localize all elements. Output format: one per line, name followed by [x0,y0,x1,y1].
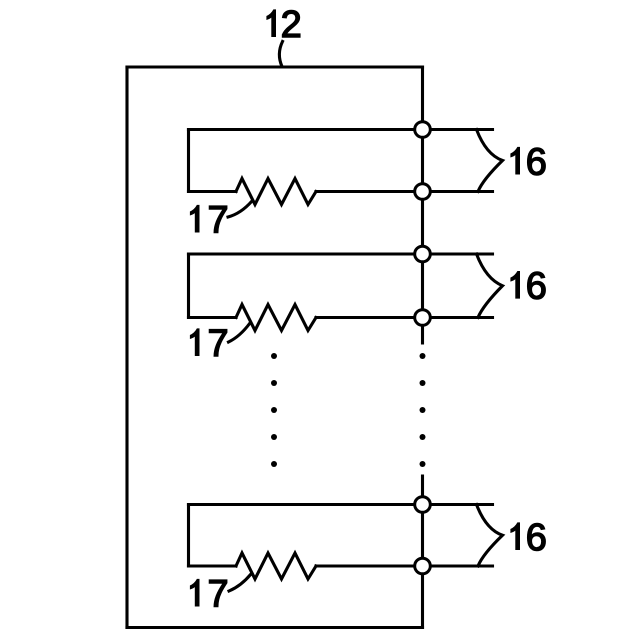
terminal node circle (pair 2 upper) [415,246,431,262]
terminal stub wire lower (pair 1) [423,190,493,193]
label 17 (loop 2) [190,323,229,365]
loop 2 bottom-right wire [316,316,423,319]
label 12 [266,4,301,46]
svg-text:6: 6 [526,266,547,308]
svg-text:7: 7 [208,574,229,616]
resistor 17 (loop 2) zigzag [236,305,316,331]
svg-text:6: 6 [526,517,547,559]
brace 16 (pair 3) [477,505,503,567]
terminal stub wire upper (pair 2) [423,252,493,255]
label 16 (pair 3) [510,517,547,559]
loop 1 left wire [187,130,190,192]
loop 3 left wire [187,505,190,567]
enclosure box 12 : left edge [125,67,128,628]
terminal node circle (pair 3 upper) [415,497,431,513]
terminal node circle (pair 1 upper) [415,122,431,138]
leader line for label 12 [279,42,282,67]
brace 16 (pair 1) [477,130,503,192]
loop 3 top wire [189,503,423,506]
terminal stub wire lower (pair 2) [423,316,493,319]
ellipsis dots left column [271,353,277,467]
loop 1 bottom-right wire [316,190,423,193]
loop 2 bottom-left wire [189,316,237,319]
svg-text:7: 7 [208,200,229,242]
enclosure box 12 : right edge lower segment (bus line) [421,476,424,628]
leader line for label 17 (loop 3) [229,574,251,591]
enclosure box 12 : right edge upper segment (bus line) [421,67,424,343]
label 16 (pair 2) [510,266,547,308]
label 16 (pair 1) [510,142,547,184]
svg-text:6: 6 [526,142,547,184]
enclosure box 12 : bottom edge [127,626,423,629]
loop 1 bottom-left wire [189,190,237,193]
terminal stub wire upper (pair 3) [423,503,493,506]
ellipsis dots right column [420,353,426,467]
svg-text:7: 7 [208,323,229,365]
loop 3 bottom-right wire [316,564,423,567]
terminal node circle (pair 1 lower) [415,184,431,200]
svg-text:2: 2 [281,4,302,46]
label 17 (loop 3) [190,574,229,616]
terminal stub wire lower (pair 3) [423,564,493,567]
resistor 17 (loop 1) zigzag [236,179,316,205]
loop 2 left wire [187,254,190,318]
resistor 17 (loop 3) zigzag [236,553,316,579]
leader line for label 17 (loop 2) [229,323,251,342]
loop 1 top wire [189,128,423,131]
label 17 (loop 1) [190,200,229,242]
terminal node circle (pair 2 lower) [415,310,431,326]
terminal node circle (pair 3 lower) [415,558,431,574]
enclosure box 12 : top edge [127,65,423,68]
loop 2 top wire [189,252,423,255]
brace 16 (pair 2) [477,254,503,318]
loop 3 bottom-left wire [189,564,237,567]
leader line for label 17 (loop 1) [228,201,252,217]
terminal stub wire upper (pair 1) [423,128,493,131]
